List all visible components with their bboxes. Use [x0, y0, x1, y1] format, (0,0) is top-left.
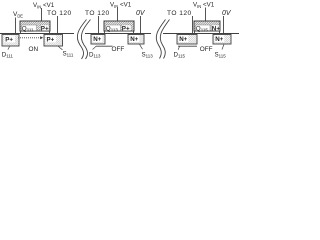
- svg-text:D111: D111: [2, 52, 14, 59]
- svg-text:N+: N+: [215, 36, 223, 43]
- svg-text:N+: N+: [179, 36, 187, 43]
- svg-text:OFF: OFF: [112, 46, 125, 53]
- region N+ (source S113): [128, 35, 144, 45]
- region N+ (drain D113): [91, 35, 105, 45]
- svg-text:P+: P+: [5, 36, 13, 43]
- svg-text:ON: ON: [29, 46, 39, 53]
- wire VIN2 to gate Q113: [117, 8, 119, 22]
- svg-text:0V: 0V: [136, 10, 146, 17]
- label S111 with leader: [58, 46, 74, 58]
- svg-text:N+: N+: [93, 36, 101, 43]
- transistor Q111 gate box (hatched): [20, 21, 50, 34]
- svg-text:TO 120: TO 120: [85, 10, 110, 17]
- svg-text:P+: P+: [47, 36, 55, 43]
- channel boundary line under Q113: [96, 45, 113, 47]
- svg-text:S115: S115: [215, 52, 227, 59]
- label D115 with leader: [174, 46, 186, 58]
- wire VIN3 to gate Q115: [205, 8, 207, 22]
- svg-text:Q111: Q111: [22, 26, 34, 33]
- wire VDE to substrate: [15, 18, 17, 34]
- svg-text:VIN <V1: VIN <V1: [193, 2, 215, 10]
- region P+ (drain D111): [2, 35, 19, 47]
- svg-text:S111: S111: [63, 51, 74, 58]
- transistor Q113 gate box (hatched): [104, 21, 134, 34]
- svg-text:TO 120: TO 120: [167, 10, 192, 17]
- svg-text:VIN <V1: VIN <V1: [110, 2, 132, 10]
- wire VIN1 to gate Q111: [41, 8, 43, 21]
- svg-text:D115: D115: [174, 52, 186, 59]
- svg-text:TO 120: TO 120: [47, 10, 72, 17]
- region N+ (source S115): [213, 35, 231, 45]
- substrate surface line (left section): [0, 33, 74, 35]
- wire TO120-3 to D115 contact: [192, 16, 194, 34]
- label S115 with leader: [215, 44, 227, 58]
- label S113 with leader: [140, 44, 154, 58]
- svg-text:D113: D113: [89, 52, 101, 59]
- substrate surface line (middle section): [85, 33, 151, 35]
- svg-text:0V: 0V: [222, 10, 232, 17]
- region P+ (source S111): [44, 35, 63, 47]
- wire TO120-1 to S111 contact: [57, 16, 59, 33]
- svg-text:VIN <V1: VIN <V1: [33, 2, 55, 10]
- label D111 with leader: [2, 47, 14, 59]
- transistor Q115 gate box (hatched): [194, 21, 220, 34]
- svg-text:N+: N+: [130, 36, 138, 43]
- wire 0V-2 to S115 contact: [223, 16, 225, 34]
- wire TO120-2 to D113 contact: [98, 16, 100, 34]
- label D113 with leader: [89, 46, 101, 58]
- channel boundary line under Q115: [178, 45, 197, 47]
- break mark 1: [77, 20, 90, 60]
- svg-text:Q113: Q113: [106, 26, 119, 33]
- substrate surface line (right section): [163, 33, 239, 35]
- svg-text:S113: S113: [142, 52, 154, 59]
- svg-text:Q115: Q115: [196, 26, 209, 33]
- break mark 2: [156, 20, 169, 59]
- svg-text:P+: P+: [122, 26, 130, 33]
- wire 0V-1 to S113 contact: [140, 16, 142, 34]
- current arrow (Q111 ON): [18, 36, 43, 39]
- svg-text:OFF: OFF: [200, 46, 213, 53]
- region N+ (drain D115): [177, 35, 197, 45]
- svg-text:P+: P+: [41, 26, 49, 33]
